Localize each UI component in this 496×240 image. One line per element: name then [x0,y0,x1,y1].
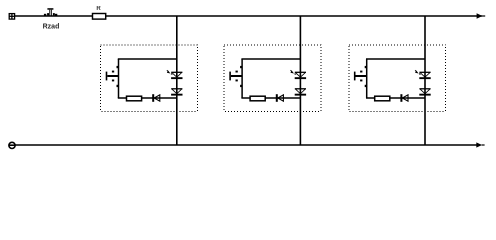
resistor R (top rail) [93,14,106,20]
diode D2b (on main wire) [295,89,306,96]
resistor Rs2 [250,96,265,101]
photodiode PD1 (on main wire, light arrows) [167,70,183,79]
svg-text:R: R [96,6,101,12]
diode D1b (on main wire) [171,89,182,96]
svg-text:Rzad: Rzad [43,23,60,30]
wire: bottom inner wire of module M3 [366,97,425,99]
diode D2a (bottom branch, cathode left) [276,94,284,102]
module M3 dotted outline [349,45,446,111]
wire: top rail [15,15,482,17]
wire: bottom rail [15,144,480,146]
module M1 dotted outline [101,45,198,111]
arrow: bottom rail right end [476,142,484,147]
diode D3b (on main wire) [419,89,430,96]
wire: bottom inner wire of module M2 [241,97,300,99]
terminal - (minus) bottom left [9,142,15,148]
switch S1 (pushbutton, rotated) [106,66,119,87]
wire: top inner wire of module M3 [366,58,425,60]
wire: bottom inner wire of module M1 [118,97,177,99]
switch S2 (pushbutton, rotated) [229,66,242,87]
module M2 dotted outline [224,45,321,111]
switch Rzad (pushbutton on top rail) [44,8,57,16]
resistor Rs3 [375,96,390,101]
wire: vertical branch wire of module M1 [118,59,120,98]
arrow: top rail right end [477,13,486,18]
photodiode PD2 (on main wire, light arrows) [290,70,306,79]
switch S3 (pushbutton, rotated) [354,66,367,87]
wire: main vertical wire of module M2 [299,16,301,145]
terminal + (plus) top left [9,14,14,20]
wire: vertical branch wire of module M2 [241,59,243,98]
diode D3a (bottom branch, cathode left) [400,94,408,102]
wire: top inner wire of module M2 [241,58,300,60]
wire: vertical branch wire of module M3 [366,59,368,98]
diode D1a (bottom branch, cathode left) [152,94,160,102]
wire: main vertical wire of module M1 [176,16,178,145]
wire: top inner wire of module M1 [118,58,177,60]
resistor Rs1 [127,96,142,101]
photodiode PD3 (on main wire, light arrows) [415,70,431,79]
wire: main vertical wire of module M3 [424,16,426,145]
